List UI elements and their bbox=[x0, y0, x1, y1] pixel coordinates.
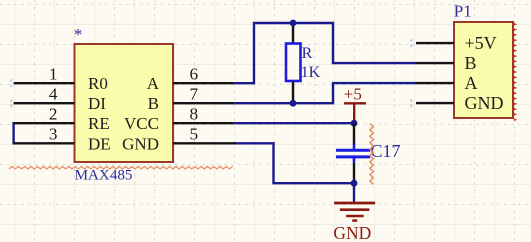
svg-text:B: B bbox=[148, 94, 159, 113]
capacitor C17 bbox=[336, 123, 401, 183]
svg-text:VCC: VCC bbox=[124, 114, 159, 133]
pin-end grid dots bbox=[10, 80, 12, 87]
pin 5 GND bbox=[173, 125, 236, 144]
svg-text:1K: 1K bbox=[301, 64, 321, 81]
pin P1 GND bbox=[416, 102, 454, 104]
pin 6 A bbox=[173, 64, 233, 83]
svg-text:P1: P1 bbox=[454, 1, 472, 20]
svg-text:2: 2 bbox=[49, 104, 58, 123]
svg-text:A: A bbox=[147, 74, 160, 93]
wire pin6 A to P1 B bbox=[233, 23, 416, 83]
ERC squiggle under MAX485 bbox=[9, 166, 233, 169]
pin P1 B bbox=[416, 62, 454, 64]
svg-text:*: * bbox=[74, 25, 83, 44]
svg-text:7: 7 bbox=[190, 84, 199, 103]
svg-text:5: 5 bbox=[190, 125, 199, 144]
svg-text:3: 3 bbox=[49, 125, 58, 144]
pin 2 RE bbox=[14, 104, 75, 123]
svg-text:DE: DE bbox=[88, 134, 111, 153]
designator MAX485 bbox=[75, 168, 133, 184]
svg-text:C17: C17 bbox=[371, 141, 401, 161]
junction node resistor top bbox=[290, 20, 297, 27]
svg-text:6: 6 bbox=[190, 64, 199, 83]
pin 4 DI bbox=[14, 84, 75, 103]
svg-text:GND: GND bbox=[465, 93, 504, 113]
wire pin7 B to P1 A bbox=[233, 83, 416, 103]
ground GND bbox=[333, 203, 375, 242]
svg-text:B: B bbox=[465, 53, 477, 73]
svg-text:R0: R0 bbox=[88, 74, 108, 93]
junction node capacitor bottom bbox=[351, 180, 358, 187]
junction node resistor bottom bbox=[290, 100, 297, 107]
svg-text:4: 4 bbox=[49, 84, 58, 103]
svg-text:+5: +5 bbox=[344, 84, 362, 103]
pin P1 A bbox=[416, 82, 454, 84]
svg-text:RE: RE bbox=[88, 114, 110, 133]
pin 3 DE bbox=[14, 125, 75, 144]
connector P1 bbox=[454, 1, 513, 118]
ERC marker P1 right edge bbox=[514, 23, 517, 121]
junction node +5/VCC bbox=[351, 120, 358, 127]
wire pin8 VCC to +5 node bbox=[233, 122, 354, 124]
svg-text:DI: DI bbox=[88, 94, 106, 113]
power +5 bbox=[344, 84, 366, 123]
svg-text:A: A bbox=[465, 73, 478, 93]
svg-text:8: 8 bbox=[190, 104, 199, 123]
resistor R 1K bbox=[286, 23, 321, 103]
svg-text:+5V: +5V bbox=[465, 33, 497, 53]
ERC squiggle beside C17 bbox=[370, 124, 373, 185]
svg-text:1: 1 bbox=[49, 64, 58, 83]
svg-text:MAX485: MAX485 bbox=[75, 168, 133, 184]
pin 7 B bbox=[173, 84, 233, 103]
wire ground stem bbox=[353, 183, 355, 202]
pin 8 VCC bbox=[173, 104, 233, 123]
svg-text:GND: GND bbox=[122, 134, 159, 153]
pin P1 +5V bbox=[416, 42, 454, 44]
pin 1 R0 bbox=[14, 64, 75, 83]
svg-text:R: R bbox=[302, 45, 313, 62]
IC U1 MAX485 bbox=[75, 44, 174, 162]
wire RE-DE tie bbox=[14, 123, 15, 143]
marker asterisk bbox=[74, 25, 83, 44]
wire pin5 GND to ground node bbox=[234, 143, 354, 183]
svg-text:GND: GND bbox=[333, 223, 371, 242]
